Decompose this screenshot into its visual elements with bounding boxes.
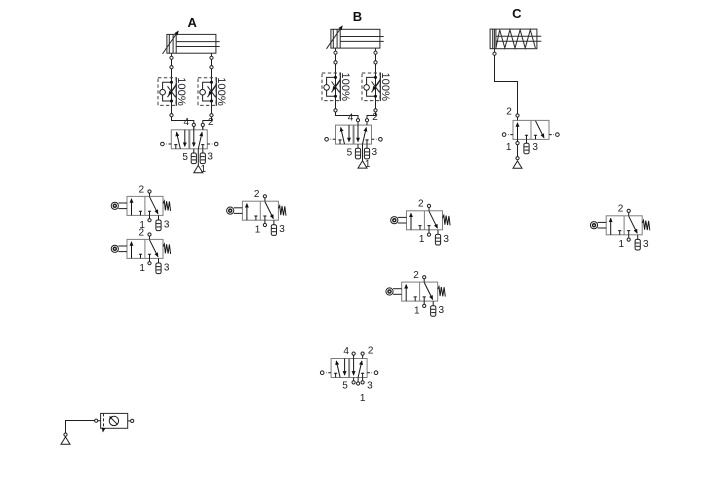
wire cylinder A left port to flow valve (171, 58, 173, 68)
cylinder C (490, 29, 541, 55)
svg-text:A: A (188, 15, 198, 30)
svg-text:C: C (512, 6, 522, 21)
valve B 5/2 (325, 112, 382, 170)
wire cylinder C port to valve C port 2 (495, 54, 518, 121)
supply port circle service (64, 433, 67, 436)
roller valve 1 (111, 184, 170, 231)
wire flow valve to valve A port 4 (172, 115, 194, 130)
wire flow valve to valve A port 2 (203, 115, 212, 130)
roller valve 3 (227, 189, 286, 236)
wire flow valve to valve B port 2 (367, 110, 376, 125)
supply port circle C (516, 157, 519, 160)
roller valve 6 (386, 270, 445, 317)
roller valve 5 (590, 204, 649, 251)
roller valve 4 (391, 199, 450, 246)
wire valve C port 1 to supply (517, 139, 519, 158)
cylinder A (163, 31, 220, 59)
compressed air supply C (513, 161, 522, 168)
flow control valve B right (362, 61, 391, 112)
valve 1 5/2 unconnected (320, 346, 377, 405)
service unit body (101, 413, 128, 428)
flow control valve B left (322, 61, 351, 112)
compressed air supply service (61, 437, 70, 444)
drain arrow (102, 428, 105, 432)
regulator dial (109, 416, 118, 425)
left port (96, 420, 100, 422)
flow control valve A right (198, 66, 227, 117)
svg-text:B: B (353, 9, 362, 24)
wire cylinder B left port to flow valve (335, 53, 337, 62)
service unit (95, 413, 134, 431)
cylinder B (327, 26, 384, 54)
valve C 3/2 (502, 106, 559, 153)
valve A 5/2 (161, 117, 218, 175)
right port (128, 420, 131, 422)
wire flow valve to valve B port 4 (336, 110, 359, 125)
wire cylinder A right port to flow valve (211, 58, 213, 68)
flow control valve A left (158, 66, 187, 117)
wire cylinder B right port to flow valve (375, 53, 377, 62)
wire service unit to supply (66, 421, 97, 437)
roller valve 2 (111, 227, 170, 274)
